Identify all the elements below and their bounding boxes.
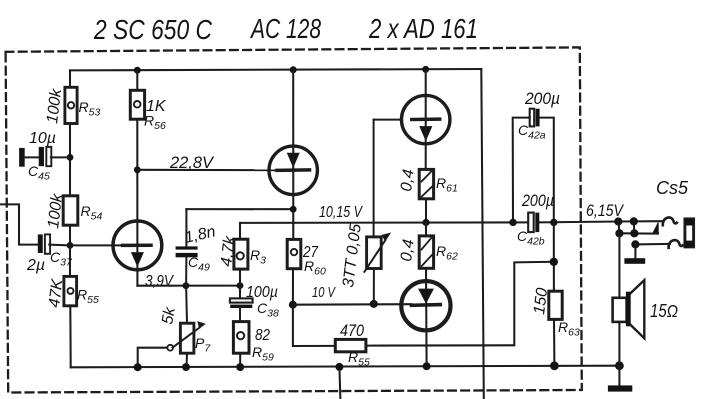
node: speaker on bottom rail end [615,361,624,370]
capacitor C38 [230,286,253,322]
wire: input node to R55 top [69,245,71,276]
label R3 [250,247,266,267]
svg-text:R62: R62 [436,243,458,263]
label 47K (R55) [46,277,67,309]
svg-text:1,8n: 1,8n [183,223,217,247]
wire: rail corner down to R53 [69,70,71,87]
label R60 [304,258,326,278]
svg-text:AC 128: AC 128 [250,13,322,44]
svg-text:R63: R63 [558,319,580,339]
label C38 [257,300,279,320]
title label 2xAD161 [368,13,478,44]
label Cs5 [656,178,689,198]
svg-text:3TT 0,05: 3TT 0,05 [340,223,365,289]
wire: T1 emitter down [136,271,138,285]
resistor R63 [549,291,562,319]
capacitor C45 [20,147,70,166]
resistor R62 [419,236,433,268]
svg-text:6,15V: 6,15V [586,202,625,220]
capacitor C42a with bridge wires [513,109,554,223]
resistor R3 [234,239,248,269]
node: jack row1 dot a [614,217,622,225]
svg-text:10,15 V: 10,15 V [319,204,363,221]
wire: R59 bottom to rail [239,353,241,367]
svg-text:C42a: C42a [518,122,546,142]
wire: R63 column from rail [553,222,555,291]
label 15ohm [650,301,678,321]
resistor R55 [64,276,77,305]
svg-text:R54: R54 [81,203,103,223]
wire: R62 bottom to T4 [425,268,428,366]
label 470 [340,322,365,340]
svg-text:C49: C49 [188,254,210,274]
label C45 [28,163,50,183]
node: C49 / P7 tap [183,282,190,289]
svg-text:R55: R55 [77,287,99,307]
svg-text:82: 82 [255,327,270,344]
capacitor C49 [176,209,198,286]
wire: T3 emitter to R60 [0,0,1,1]
wire: T4 emitter to bottom rail [0,0,1,1]
label C42b [517,228,545,248]
label 200u (C42b) [521,192,554,210]
node: C42a left on rail [509,219,516,226]
capacitor C42b (in series with output rail) [528,213,539,233]
label 10u [29,130,56,147]
ground: jack sleeve ground [624,244,645,263]
label 82 [255,327,270,344]
potentiometer P7 [167,286,204,368]
node: wiper wire on bottom rail [134,363,142,371]
wire: R3 bottom stub [239,269,241,286]
node: line A joins T3 emitter [290,206,297,213]
svg-text:47K: 47K [46,277,67,309]
potentiometer 3TT 0,05 [364,120,389,304]
label 200u (C42a) [524,90,560,108]
label R62 [436,243,458,263]
label R59 [252,344,274,364]
label 0,4 (R61) [398,168,418,192]
svg-text:100µ: 100µ [246,284,278,301]
svg-text:2 SC 650 C: 2 SC 650 C [93,14,212,45]
wire: T2 emitter to R61 [0,0,1,1]
svg-text:4,7k: 4,7k [218,234,239,267]
wire: emitter run to R3 bottom [137,285,240,287]
wire: R65 right to C42/R63 tap [366,262,554,346]
resistor R65 (470) [335,339,366,351]
svg-text:5k: 5k [159,305,179,326]
wire: R56 bottom to T1 collector [136,119,138,271]
node: feedback tap on R63 column [550,258,558,266]
label 3,9V [145,273,174,290]
node: T4 emitter on bottom rail [423,362,431,370]
node: jack row3 dot [631,240,639,248]
title label AC128 [250,13,322,44]
wire: R63 bottom to rail [553,319,555,365]
resistor R60 [287,239,301,268]
label R63 [558,319,580,339]
node: R63 bottom on bottom rail [550,361,559,370]
wire: C49 top run to T3 emitter column [186,208,293,210]
svg-text:2µ: 2µ [26,257,45,274]
svg-text:R61: R61 [436,175,458,195]
jack row2 contact line [619,221,659,233]
wire: T3 collector from rail [292,70,294,240]
wire: output rail (right of C42b) [539,220,618,223]
resistor R53 [65,87,77,123]
svg-text:C42b: C42b [517,228,545,248]
node: R61/R62 on output rail [422,219,429,226]
wire: rail to R56 top [136,70,138,90]
wire: right long vertical from top rail to image bottom [481,69,484,399]
transistor T1 (2SC650C) [113,221,162,270]
label R61 [436,175,458,195]
node: jack row1 dot b [630,217,638,225]
wire: speaker to bottom rail [618,322,620,366]
wire: jack to speaker [618,233,620,297]
jack socket Cs5: row1 contacts [618,217,677,225]
node: 3TT pot bottom [370,300,378,308]
transistor T2 (AD161 upper) [402,95,450,143]
svg-text:150: 150 [531,287,551,316]
svg-text:R59: R59 [252,344,274,364]
wire: feedback run from base node down to R65 [293,305,335,346]
wire: R60 bottom to base node [292,269,294,305]
svg-text:3,9V: 3,9V [145,273,174,290]
node: C45 tap [67,154,74,161]
wire: bottom ground rail [71,366,620,368]
label P7 [195,335,211,355]
label 27 [302,244,319,261]
node: R56 top on rail [134,67,141,74]
label 100k (R54) [45,192,66,230]
svg-text:C38: C38 [257,300,279,320]
wire: top supply rail [70,69,481,70]
jack row3 contact line [635,240,682,248]
node: jack row2 dot b [630,229,638,237]
node: C42a right / R63 column on rail [550,219,557,226]
ground: main ground under speaker [608,366,632,392]
label 3TT 0,05 [340,223,365,289]
svg-text:P7: P7 [195,335,211,355]
svg-text:15Ω: 15Ω [650,301,678,321]
node: jack row2 dot a [615,229,623,237]
label R65 [348,349,370,369]
node: R59 bottom on rail [236,363,244,371]
label R54 [81,203,103,223]
node: input node (C37 / R54 / R55 / T1 base) [67,242,74,249]
wire: T4 base wire from node [293,303,412,306]
node: T3 collector on rail [290,66,297,73]
label 100k (R53) [44,87,65,125]
label 100u (C38) [246,284,278,301]
jack switch triangle [653,223,659,234]
wire: T2 base wire [374,119,401,121]
label 5k [159,305,179,326]
speaker 15 ohm [613,280,645,338]
label 10,15 V [319,204,363,221]
svg-text:R53: R53 [79,99,101,119]
node: exit line on bottom rail [335,363,343,371]
label 2u [26,257,45,274]
transistor T4 (AD161 lower) [401,281,450,330]
svg-text:Cs5: Cs5 [656,178,689,198]
wire: T2 collector from rail [425,69,427,169]
wire: R61 bottom to rail [425,199,427,223]
svg-text:0,4: 0,4 [398,168,418,192]
wire: R55 bottom to bottom rail corner [69,306,71,368]
node: P7 bottom on rail [182,363,190,371]
label 150 [531,287,551,316]
wire: bottom rail exit to image bottom [339,367,340,399]
node: T2 collector on rail [422,66,429,73]
wire: T3 base wire [137,169,278,171]
label 0,4 (R62) [398,238,418,262]
label R56 [144,113,166,133]
node: R3 bottom [237,282,244,289]
svg-text:2 x AD 161: 2 x AD 161 [368,13,478,44]
capacitor C37 [38,234,70,253]
wire: P7 wiper to bottom rail [138,348,168,368]
wire: T1 base from input node [70,244,124,246]
svg-text:10µ: 10µ [29,130,56,147]
svg-text:22,8V: 22,8V [169,154,215,172]
label C37 [50,249,73,269]
resistor R56 [130,90,144,119]
label 1,8n [183,223,217,247]
wire: R54 bottom to input node [69,225,71,245]
label 22,8V [169,154,215,172]
wire: output rail (left of C42b) [240,221,528,224]
wire: R53 bottom to R54 top [69,124,71,196]
label C42a [518,122,546,142]
dashed enclosure border [6,47,582,392]
label R55 [77,287,99,307]
resistor R61 [419,169,433,198]
jack plug bar [685,219,694,247]
svg-text:10 V: 10 V [312,284,336,301]
svg-text:470: 470 [340,322,365,340]
svg-text:0,4: 0,4 [398,238,418,262]
wire: R3 top to output rail [239,223,241,239]
label R53 [79,99,101,119]
resistor R59 [233,322,249,354]
svg-text:200µ: 200µ [524,90,560,108]
node: T3 base tap [134,166,141,173]
transistor T3 (AC128) [269,146,317,194]
svg-text:R56: R56 [144,113,166,133]
node: T4 base node [289,301,297,309]
label 4,7k [218,234,239,267]
svg-text:100k: 100k [44,87,65,125]
svg-text:200µ: 200µ [521,192,554,210]
label 6,15V [586,202,625,220]
label 10V [312,284,336,301]
title label 2SC650C [93,14,212,45]
label 1K [146,98,167,115]
svg-text:R3: R3 [250,247,266,267]
label C49 [188,254,210,274]
wire: rail to R62 top [425,223,427,236]
wire: input lead-in from left edge [0,204,38,244]
resistor R54 [63,196,78,225]
